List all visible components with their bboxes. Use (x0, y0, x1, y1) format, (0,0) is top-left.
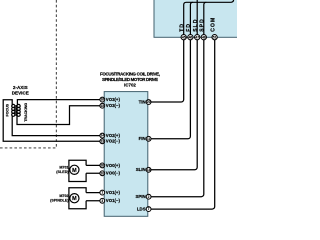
pin 2 SPIN (135, 194, 151, 199)
wire tracking coil to VO3(+) (17, 100, 100, 105)
svg-text:SPINDLE/SLED MOTOR DRIVE: SPINDLE/SLED MOTOR DRIVE (102, 77, 158, 82)
pin 1 VO1(+) (100, 190, 121, 195)
driver IC702 block (104, 92, 148, 217)
svg-text:VO2(+): VO2(+) (106, 133, 121, 138)
svg-text:7: 7 (148, 207, 150, 211)
wire (204, 2, 207, 35)
wire focus coil to VO2(+) (12, 116, 100, 136)
spindle motor bracket wiring (69, 188, 100, 209)
svg-text:(SPINDLE): (SPINDLE) (50, 198, 69, 202)
svg-text:18: 18 (147, 168, 151, 172)
pin 16 VO3(+) (100, 97, 121, 102)
svg-text:COM: COM (210, 17, 216, 32)
svg-text:M701: M701 (59, 165, 68, 169)
svg-text:FIN: FIN (139, 136, 146, 141)
wire COM to LDS (151, 40, 215, 209)
wire SLD to SLIN (151, 40, 197, 170)
svg-text:TD: TD (179, 23, 185, 32)
pin 3 VO1(-) (100, 198, 121, 203)
svg-text:SLD: SLD (193, 18, 199, 31)
svg-text:VO1(−): VO1(−) (106, 198, 121, 203)
svg-text:SPIN: SPIN (135, 194, 145, 199)
svg-text:VO3(+): VO3(+) (106, 97, 121, 102)
servo/system controller block (top right, cropped) (154, 0, 240, 37)
svg-text:FOCUS/TRACKING COIL DRIVE,: FOCUS/TRACKING COIL DRIVE, (100, 71, 160, 76)
svg-text:DEVICE: DEVICE (12, 91, 29, 96)
svg-text:45: 45 (182, 35, 186, 39)
pin 15 VO3(-) (100, 103, 121, 108)
svg-text:FD: FD (186, 23, 192, 32)
svg-text:VO3(−): VO3(−) (106, 103, 121, 108)
svg-text:15: 15 (100, 104, 104, 108)
focus coil (12, 104, 15, 116)
wire (196, 0, 198, 35)
svg-text:26: 26 (100, 164, 104, 168)
wire focus coil to VO2(-) (3, 100, 100, 142)
svg-text:M: M (72, 196, 77, 202)
pin 51 (212, 35, 217, 40)
wire SPD to SPIN (151, 40, 204, 197)
svg-text:20: 20 (147, 100, 151, 104)
pin 10 VO0(-) (100, 171, 121, 176)
pin 13 VO2(-) (100, 139, 121, 144)
svg-text:16: 16 (100, 98, 104, 102)
motor M702 (spindle) (70, 194, 79, 203)
svg-text:51: 51 (213, 35, 217, 39)
svg-text:SLIN: SLIN (136, 167, 146, 172)
svg-text:TRACKING: TRACKING (24, 103, 28, 122)
pin 48 (201, 35, 206, 40)
svg-text:VO2(−): VO2(−) (106, 139, 121, 144)
svg-text:(SLED): (SLED) (56, 170, 69, 174)
svg-text:2: 2 (148, 195, 150, 199)
coil cores (15, 105, 16, 116)
wire bus inside controller (184, 0, 234, 35)
svg-text:11: 11 (147, 137, 151, 141)
pin 7 LDS (137, 206, 151, 211)
svg-text:LDS: LDS (137, 206, 146, 211)
sled motor bracket wiring (69, 160, 100, 181)
svg-text:VO1(+): VO1(+) (106, 190, 121, 195)
svg-text:IC702: IC702 (124, 82, 136, 87)
pin 14 VO2(+) (100, 133, 121, 138)
svg-text:48: 48 (202, 35, 206, 39)
svg-text:46: 46 (189, 35, 193, 39)
pin 11 FIN (139, 136, 151, 141)
svg-text:1: 1 (101, 191, 103, 195)
dashed pickup boundary (0, 0, 56, 148)
pin 45 (181, 35, 186, 40)
svg-text:M: M (72, 168, 77, 174)
pin 46 (188, 35, 193, 40)
svg-text:SPD: SPD (200, 18, 206, 32)
pin 26 VO0(+) (100, 163, 121, 168)
motor M701 (sled) (70, 165, 79, 174)
tracking coil (17, 104, 20, 116)
pin 18 SLIN (136, 167, 151, 172)
svg-text:3: 3 (101, 199, 103, 203)
pin 20 TIN (139, 99, 151, 104)
svg-text:VO0(−): VO0(−) (106, 171, 121, 176)
wire FD to FIN (151, 40, 191, 139)
svg-text:13: 13 (100, 139, 104, 143)
svg-text:2-AXIS: 2-AXIS (13, 85, 28, 90)
svg-text:10: 10 (100, 171, 104, 175)
svg-text:47: 47 (195, 35, 199, 39)
svg-text:M702: M702 (59, 194, 68, 198)
pin 47 (195, 35, 200, 40)
svg-text:14: 14 (100, 134, 104, 138)
wire TD to TIN (151, 40, 184, 102)
svg-text:VO0(+): VO0(+) (106, 163, 121, 168)
svg-text:TIN: TIN (139, 99, 146, 104)
wire tracking coil to VO3(-) (17, 106, 100, 125)
svg-text:FOCUS: FOCUS (5, 103, 9, 116)
wire (190, 2, 193, 35)
